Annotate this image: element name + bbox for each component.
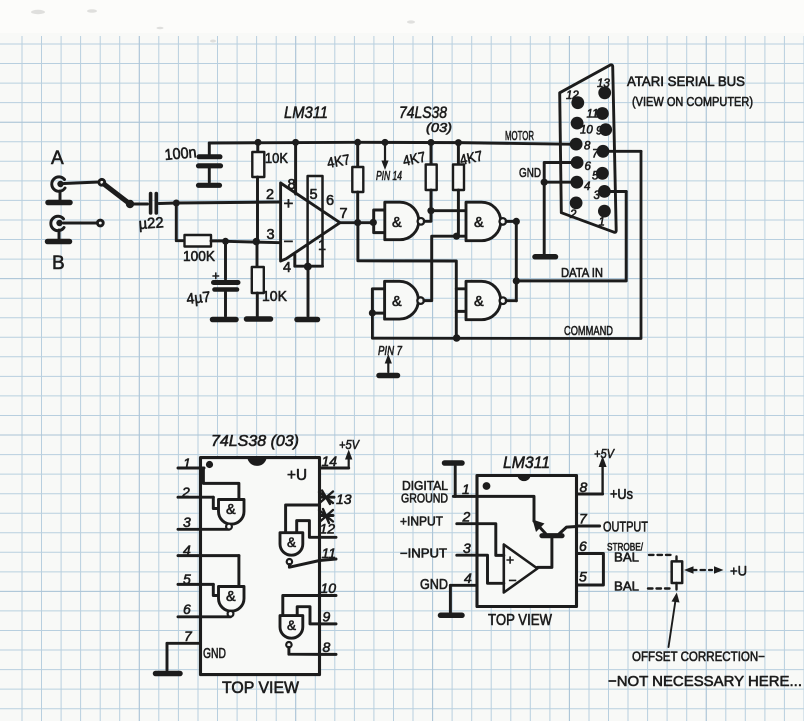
svg-text:OFFSET CORRECTION−: OFFSET CORRECTION− [632, 649, 765, 664]
svg-text:4: 4 [584, 181, 590, 193]
connector pin 8 [570, 138, 591, 153]
IC U2 74LS38 body [201, 458, 320, 675]
PIN 14 annotation arrow [376, 139, 402, 183]
PIN 7 annotation grounded [378, 344, 403, 376]
ground under R3 [247, 316, 271, 322]
svg-text:A: A [51, 148, 64, 169]
svg-text:TOP VIEW: TOP VIEW [488, 612, 552, 629]
pin 4 label U1 [283, 260, 291, 276]
wire G3 out up to node P3 [424, 236, 455, 300]
svg-text:LM311: LM311 [503, 453, 550, 472]
wire B stub [64, 220, 104, 226]
connector pin 9 [596, 123, 612, 137]
wire rail to pin8 U1 [292, 139, 299, 194]
op-amp U1 LM311 label [284, 103, 328, 122]
node pin4/ground junction [304, 263, 312, 316]
wire COMMAND [372, 151, 641, 338]
svg-text:&: & [474, 215, 484, 231]
svg-text:7: 7 [579, 511, 588, 527]
trimmer R7 offset pot [672, 557, 683, 590]
U3 internal op-amp triangle [504, 545, 538, 593]
wire switch to C1 [133, 203, 148, 206]
connector pin 11 [587, 107, 609, 120]
svg-text:+Us: +Us [610, 487, 633, 503]
svg-text:2: 2 [181, 484, 190, 500]
switch S1 (open circle pivot + lever + contact dot) [99, 179, 134, 208]
U2 gate C (12,13 -> 11) [280, 505, 320, 567]
wire stub G4 input B [456, 310, 466, 313]
wire gnd down [543, 182, 546, 253]
resistor R1 10K upper divider [252, 142, 288, 241]
U2 pin 14 stub +5V [320, 437, 361, 469]
svg-text:ATARI SERIAL BUS: ATARI SERIAL BUS [627, 74, 745, 89]
dashed wire strobe to pot [649, 554, 671, 556]
svg-text:−: − [284, 232, 294, 251]
ground bar connector [535, 254, 556, 260]
U2 crossed-out stub (12 misdrawn) [319, 509, 335, 537]
U2 gate D (9,10 -> 8) [280, 596, 320, 655]
svg-text:13: 13 [597, 78, 610, 90]
svg-text:4: 4 [464, 570, 472, 586]
svg-text:7: 7 [340, 206, 348, 222]
connector pin 7 [592, 145, 609, 161]
svg-text:6: 6 [579, 538, 587, 554]
U3 internal wire pin2 to + [477, 524, 504, 556]
arrow offset correction to pot [669, 593, 680, 648]
wire pin7 to COMMAND [609, 150, 641, 153]
svg-text:6: 6 [326, 193, 334, 209]
node output/R4 junction [354, 219, 361, 226]
wire wired-AND vertical [515, 221, 518, 300]
connector pin 3 [594, 185, 611, 202]
svg-text:TOP VIEW: TOP VIEW [222, 679, 299, 697]
wire G1 out to node P2 [424, 211, 431, 222]
wire pin4 to gnd [544, 181, 570, 184]
GND net label [519, 165, 541, 180]
node P2 junction (R5 + G1out + G2 inA) [427, 207, 434, 214]
svg-text:5: 5 [592, 171, 599, 183]
svg-text:12: 12 [320, 521, 336, 537]
wire node IN down to R2 [176, 203, 184, 241]
resistor R2 100K [183, 235, 215, 265]
svg-text:5: 5 [579, 569, 587, 585]
svg-text:9: 9 [323, 609, 331, 625]
MOTOR net label [505, 128, 534, 143]
svg-text:10: 10 [321, 580, 337, 596]
svg-text:COMMAND: COMMAND [564, 323, 613, 338]
node A label [51, 148, 64, 169]
wire U1 out routing to G4 [358, 223, 456, 338]
svg-text:100n: 100n [164, 144, 197, 164]
connector pin 12 [566, 90, 584, 109]
svg-text:8: 8 [323, 639, 331, 655]
svg-text:2: 2 [569, 209, 577, 221]
U3 pin 1 stub digital ground [401, 463, 477, 506]
U2 pin 9 stub [320, 609, 337, 625]
U2 pin 2 stub [178, 484, 213, 500]
connector B (jack) [48, 216, 70, 241]
svg-text:4: 4 [183, 542, 191, 558]
pin 7 label U1 output [340, 206, 348, 222]
svg-text:6: 6 [585, 161, 592, 173]
svg-text:&: & [474, 294, 484, 310]
wire stub G4 input A [456, 287, 466, 290]
U2 gate B (4,5 -> 6) [213, 556, 244, 617]
svg-text:74LS38 (03): 74LS38 (03) [211, 433, 299, 450]
dashed wire bal to pot [648, 587, 670, 589]
svg-text:B: B [52, 253, 65, 274]
U2 TOP VIEW caption [222, 679, 299, 697]
wire +5V rail [209, 142, 576, 144]
svg-text:8: 8 [584, 141, 591, 153]
svg-text:10: 10 [580, 125, 593, 137]
svg-text:8: 8 [580, 479, 588, 495]
U3 pin 7 stub OUTPUT [577, 511, 649, 536]
U3 TOP VIEW caption [488, 612, 552, 629]
capacitor C3 4µ7 polarized [186, 241, 238, 316]
svg-text:+U: +U [287, 467, 307, 484]
svg-text:+: + [284, 194, 294, 213]
U2 pin 13 stub crossed out [319, 491, 352, 508]
wire G2 out to node DATA [506, 220, 516, 223]
connector pin 10 [571, 117, 594, 137]
svg-text:1: 1 [462, 481, 470, 497]
svg-text:&: & [392, 294, 402, 310]
U2 pin 4 stub [178, 542, 239, 558]
node DATA IN junction [513, 277, 520, 284]
svg-text:6: 6 [183, 601, 191, 617]
wire node IN to pin2 of U1 [176, 202, 280, 203]
svg-text:GROUND: GROUND [401, 492, 448, 506]
NAND gate G1 (inputs tied to U1 out) [374, 202, 425, 240]
svg-text:(VIEW ON COMPUTER): (VIEW ON COMPUTER) [632, 94, 753, 109]
svg-text:OUTPUT: OUTPUT [603, 520, 648, 536]
wire pin6 to gnd [544, 163, 571, 183]
svg-text:DATA IN: DATA IN [561, 265, 603, 280]
wire A to switch [64, 182, 99, 184]
node output/NAND1 input junction [370, 219, 377, 226]
U2 pin 8 stub [320, 639, 337, 655]
U3 pin 6 / pin 5 strobe-bal loop [577, 538, 604, 585]
svg-text:&: & [226, 589, 236, 605]
node rail-R1 [255, 139, 262, 146]
node IN junction [173, 200, 180, 207]
svg-text:&: & [226, 502, 236, 518]
dashed arrow pot to +U [684, 563, 747, 579]
resistor R6 4K7 pull-up [453, 139, 484, 236]
resistor R4 4K7 pull-up [326, 139, 363, 223]
node B label [52, 253, 65, 274]
U2 pin 12 stub [320, 536, 337, 539]
svg-text:5: 5 [183, 571, 191, 587]
svg-text:GND: GND [203, 646, 226, 662]
svg-text:−INPUT: −INPUT [400, 547, 447, 561]
U2 gate A (1,2 -> 3) [203, 468, 244, 529]
svg-text:1: 1 [183, 455, 191, 471]
svg-text:2: 2 [266, 187, 274, 203]
svg-text:PIN 14: PIN 14 [376, 169, 402, 183]
node G2out junction [513, 218, 520, 225]
wire node REF to pin3 of U1 [226, 241, 281, 242]
svg-text:7: 7 [592, 149, 599, 161]
LM311 pinout title [503, 453, 550, 472]
scan smudges top band [31, 9, 415, 42]
svg-text:4µ7: 4µ7 [186, 289, 212, 308]
svg-text:+: + [506, 552, 514, 568]
U2 pin 6 stub/wire [178, 601, 231, 617]
svg-text:−: − [509, 572, 517, 588]
svg-text:12: 12 [566, 90, 579, 102]
svg-text:(03): (03) [426, 120, 452, 135]
svg-text:BAL: BAL [614, 580, 639, 594]
wire node P2 to G2 input A [431, 209, 466, 212]
74LS38 (03) label top [399, 103, 452, 135]
op-amp U1 comparator triangle [266, 183, 340, 261]
svg-text:PIN 7: PIN 7 [378, 344, 403, 358]
NAND gate G3 (COMMAND inverter) [369, 281, 424, 319]
svg-text:−NOT NECESSARY HERE...: −NOT NECESSARY HERE... [608, 673, 802, 690]
svg-text:3: 3 [463, 540, 471, 556]
svg-text:+5V: +5V [339, 437, 360, 452]
capacitor C2 100n to ground [164, 143, 221, 185]
resistor R5 4K7 pull-up [402, 139, 437, 211]
svg-text:11: 11 [322, 545, 337, 561]
svg-text:5: 5 [310, 187, 318, 203]
U3 pin 2 stub +INPUT [400, 509, 477, 529]
svg-text:7: 7 [184, 628, 193, 644]
svg-text:BAL: BAL [614, 551, 639, 565]
wire U1 output [340, 221, 374, 224]
wire R2 to node REF [211, 239, 226, 242]
74LS38 pinout title [211, 433, 299, 450]
U3 pin 3 stub -INPUT [400, 540, 477, 561]
offset correction note [608, 649, 802, 690]
svg-text:+INPUT: +INPUT [400, 515, 443, 529]
U2 pin 10 stub [320, 580, 337, 596]
connector pin 4 [570, 176, 590, 193]
svg-text:µ22: µ22 [138, 214, 164, 233]
U3 pin 4 stub GND [420, 570, 477, 615]
svg-text:11: 11 [587, 109, 599, 121]
STROBE/BAL labels [607, 542, 644, 594]
svg-text:13: 13 [336, 491, 352, 507]
U3 internal wire pin3 to - [477, 555, 504, 583]
svg-text:3: 3 [594, 190, 601, 202]
svg-text:1: 1 [599, 217, 605, 229]
connector pin 5 [592, 167, 609, 183]
svg-text:10K: 10K [262, 288, 287, 305]
pin 8 label U1 [288, 177, 296, 193]
connector pin 2 [569, 197, 582, 222]
svg-text:14: 14 [322, 453, 338, 469]
svg-text:10K: 10K [265, 150, 288, 167]
U3 pin 8 stub +Us [577, 446, 634, 503]
wire G4 out to wired-AND node [506, 299, 516, 302]
U3 internal emitter wire pin1 [477, 496, 534, 521]
svg-text:&: & [287, 618, 296, 633]
resistor R3 10K lower divider [252, 242, 287, 317]
U2 pin 11 stub [320, 545, 337, 561]
svg-text:3: 3 [183, 514, 191, 530]
node P3 junction (R6 + G3out + G2 inB) [453, 233, 460, 240]
svg-text:GND: GND [519, 165, 541, 180]
svg-text:LM311: LM311 [284, 103, 328, 122]
wire DATA IN [516, 192, 626, 281]
svg-text:100K: 100K [183, 248, 215, 265]
wire C1 to node IN [159, 202, 176, 205]
connector pin 13 [597, 78, 611, 99]
connector pin 6 [571, 156, 592, 173]
connector A (jack) [48, 177, 70, 203]
wire pin3 to DATA IN [611, 190, 627, 193]
U2 pin 1 stub [178, 455, 204, 471]
capacitor C1 µ22 [138, 194, 164, 233]
wire pin4 U1 down [295, 255, 323, 267]
NAND gate G4 [466, 281, 506, 319]
IC U3 LM311 body [477, 476, 577, 607]
U2 pin 7 stub GND [156, 628, 227, 674]
svg-text:+5V: +5V [594, 446, 615, 461]
svg-text:+U: +U [730, 563, 747, 579]
svg-text:4: 4 [283, 260, 291, 276]
node gnd junction [541, 179, 548, 186]
ATARI connector outline [560, 65, 617, 233]
U2 pin 5 stub [178, 571, 213, 587]
svg-text:&: & [392, 215, 402, 231]
U2 pin 3 stub/wire [178, 514, 229, 530]
node COMMAND/G4 junction [453, 334, 461, 342]
NAND gate G2 [455, 202, 506, 241]
connector title [627, 74, 753, 109]
connector pin 1 [598, 205, 611, 229]
node divider-mid junction [252, 238, 260, 246]
svg-text:MOTOR: MOTOR [505, 128, 534, 143]
svg-text:GND: GND [420, 577, 448, 593]
U3 internal transistor Q1 [533, 520, 577, 568]
svg-text:3: 3 [267, 227, 275, 243]
svg-text:9: 9 [596, 126, 603, 138]
ground under U1 pin4 [297, 317, 318, 323]
svg-text:&: & [287, 535, 296, 550]
svg-text:2: 2 [462, 509, 471, 525]
balance box pins 5/6 of U1 [308, 176, 334, 266]
node REF junction [222, 238, 229, 245]
ground under C3 [213, 317, 237, 323]
